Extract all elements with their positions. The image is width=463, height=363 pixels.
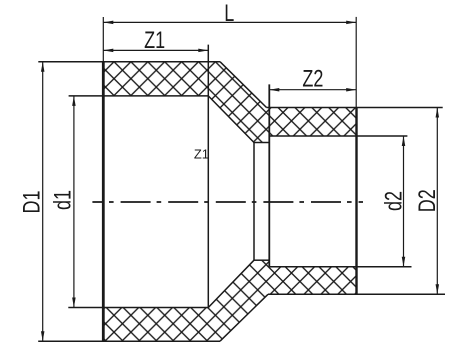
dimension line Z1 [103, 49, 208, 51]
svg-text:d1: d1 [50, 190, 76, 210]
svg-text:Z1: Z1 [144, 28, 165, 54]
arrow Z2 right [346, 88, 356, 92]
centerline [92, 201, 363, 203]
neck bore top [254, 142, 269, 144]
outer taper bottom [220, 294, 268, 341]
dimension line D2 [436, 108, 438, 295]
left face (socket mouth) [102, 62, 105, 342]
hatched wall: top section band [103, 62, 356, 143]
svg-text:d2: d2 [381, 191, 407, 211]
arrow L right [346, 21, 356, 25]
svg-text:D2: D2 [415, 189, 441, 212]
shoulder edge large socket / Z1 extension [207, 45, 209, 308]
bore bottom d1 + d1 bottom extension [68, 307, 208, 309]
dimension line d1 [73, 96, 75, 308]
arrow D1 top [41, 62, 45, 72]
L left extension [102, 17, 104, 62]
dimension line Z2 [269, 89, 356, 91]
right face (socket mouth) [355, 108, 357, 295]
label Z1 [144, 28, 165, 54]
outer top wall + D1 top extension [38, 61, 220, 63]
dimension line d2 [403, 136, 405, 267]
arrow Z2 left [269, 88, 279, 92]
svg-text:Z2: Z2 [302, 66, 323, 92]
shoulder edge small socket / Z2 extension [268, 84, 270, 266]
hatched wall: bottom section band [103, 260, 356, 341]
label d2 (rotated) [381, 191, 407, 211]
neck bore bottom [254, 259, 269, 261]
arrow Z1 left [103, 49, 113, 53]
inner taper top [208, 96, 254, 143]
bore top d2 + d2 top extension [269, 135, 407, 137]
svg-text:Z1: Z1 [194, 147, 209, 162]
dimension line D1 [42, 62, 44, 342]
svg-text:D1: D1 [19, 190, 45, 213]
outer bottom wall + D1 bottom extension [38, 340, 220, 342]
outer top small wall + D2 top extension [267, 107, 443, 109]
outer bottom small wall + D2 bottom extension [268, 293, 445, 295]
dimension line L [103, 21, 356, 23]
arrow d1 top [72, 96, 76, 106]
outer taper top [220, 62, 267, 108]
arrow d1 bottom [72, 298, 76, 308]
label Z2 [302, 66, 323, 92]
label D1 (rotated) [19, 190, 45, 213]
label L [224, 1, 234, 27]
inner taper bottom [208, 260, 254, 307]
bore top d1 + d1 top extension [69, 95, 209, 97]
arrow d2 top [402, 136, 406, 146]
arrow Z1 right [198, 49, 208, 53]
L / Z2 right extension [355, 17, 357, 108]
arrow D1 bottom [41, 331, 45, 341]
label d1 (rotated) [50, 190, 76, 210]
arrow d2 bottom [402, 257, 406, 267]
shoulder edge neck [253, 143, 255, 261]
svg-text:L: L [224, 1, 234, 27]
label D2 (rotated) [415, 189, 441, 212]
bore bottom d2 + d2 bottom extension [269, 266, 411, 268]
arrow L left [103, 21, 113, 25]
arrow D2 bottom [436, 284, 440, 294]
arrow D2 top [436, 108, 440, 118]
